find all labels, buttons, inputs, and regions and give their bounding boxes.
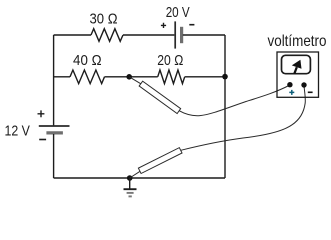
ground bar 2 — [127, 192, 134, 194]
resistor R2 40ohm — [70, 70, 105, 84]
wire R2 to node A — [105, 76, 158, 78]
wire R1 to battery V2 — [123, 34, 174, 36]
resistor R1 30ohm — [91, 29, 123, 42]
plus terminal label — [289, 90, 294, 95]
voltmeter U1 box — [277, 52, 319, 97]
voltmeter display window — [282, 55, 311, 73]
ground stub — [129, 178, 131, 189]
wire bottom horizontal — [54, 177, 225, 179]
svg-text:40 Ω: 40 Ω — [73, 52, 102, 69]
wire R3 to node B — [185, 76, 225, 78]
svg-text:voltímetro: voltímetro — [268, 33, 327, 50]
lead wire probe P2 to minus terminal — [181, 86, 306, 151]
probe P1 body — [139, 81, 181, 113]
probe P2 body — [138, 148, 182, 174]
battery V1 12V long plate — [39, 125, 70, 127]
svg-text:12 V: 12 V — [5, 123, 30, 140]
probe P1 needle from node A — [129, 77, 141, 84]
svg-text:20 V: 20 V — [166, 4, 190, 21]
svg-text:30 Ω: 30 Ω — [90, 10, 118, 27]
wire right vertical — [224, 35, 226, 178]
voltmeter needle arrowhead — [292, 60, 302, 69]
battery V2 20V long plate — [174, 21, 176, 48]
minus sign of V2 — [189, 24, 194, 26]
plus sign of V1 — [38, 110, 45, 117]
lead wire probe P1 to plus terminal — [179, 85, 290, 116]
node C ground junction dot — [127, 175, 133, 181]
wire row2 left segment — [54, 76, 70, 78]
probe P2 needle from node C — [130, 171, 141, 178]
minus sign of V1 — [39, 139, 46, 141]
wire battery V2 to top-right corner — [183, 34, 225, 36]
ground bar 1 — [124, 188, 137, 190]
node A junction dot — [126, 74, 132, 80]
wire top-left horizontal — [54, 34, 91, 36]
plus sign of V2 — [161, 23, 166, 28]
wire left vertical upper — [53, 35, 55, 126]
minus terminal dot — [301, 82, 306, 87]
battery V1 12V short plate — [46, 131, 63, 134]
ground bar 3 — [129, 195, 132, 197]
battery V2 20V short plate — [180, 27, 183, 43]
voltmeter needle shaft — [294, 67, 297, 74]
node B junction dot — [222, 74, 228, 80]
wire left vertical lower — [53, 134, 55, 178]
minus terminal label — [308, 91, 313, 93]
resistor R3 20ohm — [158, 70, 185, 84]
svg-text:20 Ω: 20 Ω — [157, 52, 183, 69]
plus terminal dot — [287, 82, 292, 87]
